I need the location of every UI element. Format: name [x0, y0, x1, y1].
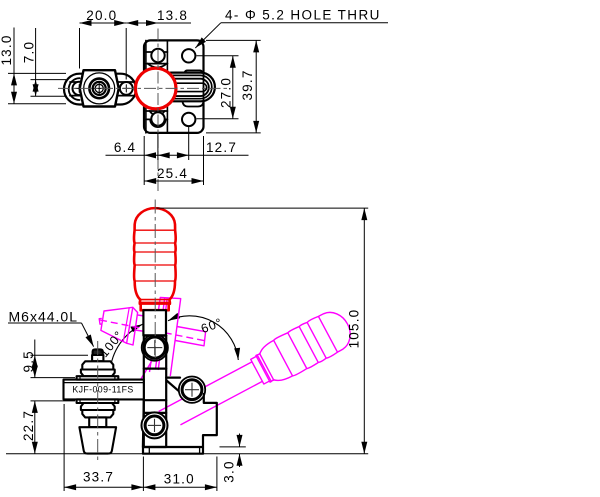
- ext between 33.7/31.0: [142, 457, 144, 492]
- ext 3.0 top: [220, 446, 246, 448]
- link bracket top line: [166, 377, 180, 379]
- svg-text:33.7: 33.7: [83, 470, 114, 485]
- pivot boss red circle: [135, 68, 176, 109]
- svg-text:3.0: 3.0: [222, 460, 237, 482]
- upper leg rounded end arc: [148, 64, 167, 68]
- arm bar: [64, 380, 144, 400]
- spindle assembly black: [64, 349, 144, 453]
- lower pivot circle: [145, 416, 164, 435]
- column: [144, 336, 166, 448]
- lower leg pocket lines: [146, 110, 168, 112]
- svg-text:12.7: 12.7: [206, 140, 237, 155]
- ext lines bottom dims: [143, 136, 145, 185]
- centerline spindle: [97, 341, 99, 462]
- dim 33.7: [64, 486, 143, 488]
- dim 31.0: [143, 486, 217, 488]
- handle stem: [143, 310, 166, 335]
- mounting hole bottom-right: [182, 113, 195, 126]
- magenta raised arm: [140, 298, 181, 381]
- top pivot circle: [144, 337, 165, 358]
- pivot crosses: [147, 340, 199, 432]
- bridge bump bottom: [183, 101, 204, 106]
- rod tip cap: [93, 349, 103, 355]
- spindle slot outer2: [158, 75, 212, 98]
- grip ribs: [318, 316, 337, 352]
- spindle slot middle: [158, 79, 209, 96]
- ext line 20.0 left: [79, 28, 81, 69]
- svg-text:25.4: 25.4: [157, 166, 188, 181]
- ext 22.7: [31, 400, 76, 402]
- washer bottom: [77, 399, 119, 403]
- hex nut 1: [82, 361, 113, 369]
- centerline front handle: [154, 200, 156, 359]
- svg-text:31.0: 31.0: [164, 472, 195, 487]
- mounting hole top-right: [182, 49, 195, 62]
- dim 3.0 arrows: [239, 434, 241, 447]
- svg-text:13.8: 13.8: [157, 8, 188, 23]
- rod to arm upper line: [138, 315, 162, 319]
- svg-text:13.0: 13.0: [0, 34, 14, 65]
- ext lines 13.0: [8, 72, 66, 74]
- black body: [142, 310, 217, 454]
- grip outline: [248, 306, 358, 391]
- hex nut 2: [81, 370, 115, 377]
- ext 9.5: [31, 354, 89, 356]
- nut stack: [101, 307, 133, 343]
- svg-text:6.4: 6.4: [114, 140, 136, 155]
- 60-degree swing arc: [168, 316, 238, 360]
- svg-text:7.0: 7.0: [22, 41, 37, 63]
- washer top: [77, 376, 119, 379]
- threaded rod: [92, 355, 103, 361]
- rod end circle left: [73, 82, 86, 95]
- spindle slot inner: [170, 83, 207, 91]
- arm capsule outer: [64, 74, 136, 105]
- hex nut 4: [82, 410, 113, 417]
- dim line 27.0: [232, 56, 234, 119]
- red handle grip: [134, 208, 176, 310]
- dim line 13.0: [13, 28, 15, 74]
- lower boss circle: [142, 412, 168, 438]
- washer quad: [127, 307, 138, 345]
- ext lines 39.7: [206, 39, 261, 41]
- magenta raised spindle assembly: [99, 307, 206, 346]
- lower leg shallow arc: [150, 111, 165, 116]
- rod tip notch: [99, 318, 102, 324]
- bottom ground/extension line: [6, 453, 368, 455]
- magenta open-position handle (rotated 61deg about lower pivot): [154, 306, 357, 440]
- hex nut top view: [80, 70, 119, 106]
- svg-text:22.7: 22.7: [21, 410, 36, 441]
- svg-text:4- Φ 5.2 HOLE THRU: 4- Φ 5.2 HOLE THRU: [225, 8, 381, 23]
- ext line 20.0/13.8 shared: [125, 28, 127, 80]
- rod to arm lower line: [135, 330, 159, 334]
- dim line 7.0: [35, 28, 37, 80]
- dim line 6.4 / 12.7: [106, 154, 249, 156]
- bridge bump top: [185, 70, 203, 72]
- pivot boss circle: [142, 335, 168, 361]
- plate channel right line: [166, 40, 168, 132]
- dim line 25.4: [144, 180, 203, 182]
- mounting hole bottom-left: [151, 112, 164, 125]
- clevis top edge: [144, 334, 166, 336]
- arm bar edges: [70, 81, 136, 83]
- plate edge through slot: [203, 74, 205, 101]
- ext 31.0 right: [216, 457, 218, 492]
- base left edge: [142, 400, 145, 447]
- ext lines 7.0: [31, 79, 67, 81]
- spindle slot outer: [157, 73, 215, 102]
- ext lines 27.0: [197, 55, 239, 57]
- M6 leader: [8, 322, 82, 324]
- rubber tip cone: [79, 427, 116, 453]
- ext 33.7 left: [63, 404, 65, 491]
- hex nut 3: [81, 403, 115, 410]
- lower leg rounded end arc: [150, 119, 165, 127]
- arm capsule inner cap arc: [69, 78, 80, 100]
- dim 22.7: [34, 401, 36, 454]
- svg-text:20.0: 20.0: [86, 8, 117, 23]
- dim line 39.7: [255, 40, 257, 132]
- nut stack inner line: [123, 308, 129, 342]
- rod stub right of arm: [175, 327, 205, 346]
- upper leg pocket lines: [146, 51, 168, 53]
- svg-text:105.0: 105.0: [347, 309, 362, 349]
- ext 105 top: [157, 207, 369, 209]
- mounting hole top-left: [151, 49, 164, 62]
- lever side lines: [159, 362, 253, 412]
- svg-text:27.0: 27.0: [219, 77, 234, 108]
- dim line 13.8: [126, 22, 158, 24]
- dim 9.5: [34, 340, 36, 356]
- rod end circle right: [120, 82, 133, 95]
- link diagonal: [167, 381, 186, 398]
- svg-text:M6x44.0L: M6x44.0L: [9, 309, 78, 325]
- plate channel left line: [145, 40, 147, 132]
- hex chamfer circle: [84, 73, 115, 104]
- dim line 20.0: [80, 22, 127, 24]
- 100-degree swing arc: [110, 324, 143, 372]
- spindle rings: [89, 79, 109, 99]
- mid boss circle: [179, 377, 205, 403]
- dim 105.0: [363, 208, 365, 454]
- base plate: [144, 40, 204, 132]
- centerline horizontal top view: [58, 87, 228, 89]
- spindle dashed axis: [100, 320, 207, 341]
- svg-text:39.7: 39.7: [240, 69, 255, 100]
- svg-text:KJF-009-11FS: KJF-009-11FS: [72, 385, 133, 395]
- mid pivot circle: [182, 380, 202, 400]
- centerline vertical top view: [157, 29, 159, 194]
- base foot strip: [143, 447, 203, 454]
- leader 4-phi5.2: [221, 22, 388, 24]
- base right outline: [203, 394, 217, 447]
- tip neck: [89, 417, 106, 427]
- svg-text:9.5: 9.5: [21, 350, 36, 372]
